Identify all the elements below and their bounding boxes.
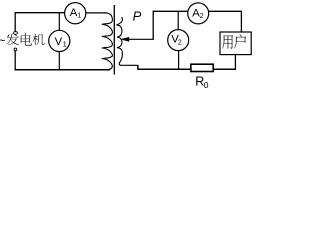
voltmeter V1 circle	[49, 30, 70, 51]
wire: right bottom wire from box to R0	[213, 68, 236, 70]
svg-text:2: 2	[200, 13, 204, 20]
svg-text:1: 1	[77, 13, 81, 20]
wire: primary bottom wire	[15, 69, 111, 71]
voltmeter V2 top lead	[177, 11, 179, 30]
svg-text:~: ~	[0, 34, 6, 48]
voltmeter V2 bottom lead	[178, 51, 180, 70]
wire: A2 to user box	[209, 11, 242, 32]
voltmeter V1 top lead	[58, 13, 60, 31]
terminal: generator lower binding post	[14, 48, 17, 51]
ammeter A1 circle	[65, 3, 86, 24]
transformer secondary winding	[117, 18, 138, 66]
svg-text:V: V	[55, 36, 63, 48]
svg-text:1: 1	[63, 41, 67, 48]
ammeter A2 circle	[188, 3, 209, 24]
wire: user box bottom lead	[234, 55, 236, 70]
slider arrowhead	[120, 37, 129, 42]
svg-text:P: P	[133, 9, 142, 24]
wire: R0 to V2 junction and step	[137, 65, 191, 69]
wire: generator bottom lead	[14, 51, 16, 71]
svg-text:2: 2	[178, 39, 182, 46]
wire: top wire from corner to ammeter A1	[15, 12, 65, 14]
voltmeter V1 bottom lead	[58, 52, 60, 70]
transformer primary winding	[102, 13, 113, 70]
wire: generator top lead to top-left corner	[14, 13, 16, 32]
wire: A1 to transformer primary	[86, 12, 106, 14]
slider contact P arrow line	[128, 38, 154, 40]
transformer core	[113, 5, 115, 75]
user load box 用户	[220, 32, 251, 55]
svg-text:0: 0	[204, 80, 209, 90]
wire: slider riser and right top wire to A2	[153, 11, 188, 40]
voltmeter V2 circle	[168, 30, 189, 51]
terminal: generator upper binding post	[14, 32, 18, 35]
resistor R0 box	[191, 64, 213, 71]
